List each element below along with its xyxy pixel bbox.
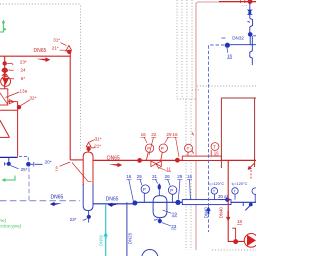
node dot DN32 (248, 32, 253, 37)
thermometer T5 blue (252, 188, 258, 194)
inline unit box on supply header (182, 156, 221, 160)
boundary dotted right y=86 (192, 86, 256, 250)
svg-text:25*: 25* (21, 167, 28, 172)
label 24 (21, 68, 27, 73)
separator vessel 4 (capsule) (83, 152, 93, 185)
blue label row (126, 174, 192, 179)
svg-text:6*: 6* (21, 76, 26, 81)
svg-text:DN40: DN40 (203, 207, 208, 219)
flow arrow up on riser (206, 206, 210, 214)
gauge P3 blue (141, 185, 149, 193)
pipe supply header DN65 (93, 159, 256, 161)
svg-text:16: 16 (187, 174, 193, 179)
svg-text:t₀=120°C: t₀=120°C (208, 181, 224, 186)
svg-text:23: 23 (171, 224, 177, 229)
thermometer T1 red (185, 144, 193, 152)
boiler return navy (0, 156, 18, 158)
consumer circle bottom (142, 250, 158, 256)
vessel drain node 23 (159, 218, 161, 224)
red label row (141, 132, 178, 137)
node dot top right (248, 0, 253, 4)
thermometer T3 blue (211, 188, 217, 194)
svg-text:T: T (213, 189, 216, 194)
pipe left riser (4, 56, 6, 88)
pump 6 (circle + down triangle) (1, 76, 11, 86)
svg-text:DN40: DN40 (218, 207, 223, 219)
svg-text:21*: 21* (52, 46, 59, 51)
svg-text:DN65: DN65 (106, 197, 119, 203)
thermometer T4 blue (232, 188, 238, 194)
cyan flow arrow up (103, 232, 108, 237)
valve 21 (triangle) at corner (66, 45, 71, 50)
svg-text:16: 16 (227, 53, 233, 58)
label 32* (30, 96, 37, 101)
boiler body box (0, 102, 18, 157)
blue label leaders (129, 179, 191, 201)
separator bottom node 23* (88, 211, 90, 223)
pipe segment (249, 15, 251, 19)
node dot pump branch (233, 239, 238, 244)
return flow arrow (108, 203, 119, 207)
pipe blue DN25 (126, 202, 128, 256)
svg-text:T: T (233, 189, 236, 194)
label 23* (20, 59, 27, 64)
svg-text:DN50: DN50 (98, 234, 103, 246)
red label leaders (144, 137, 179, 157)
exchanger frame (221, 98, 256, 168)
svg-text:21*: 21* (94, 143, 101, 148)
label 20* (45, 159, 52, 164)
node dot on return box (225, 198, 229, 202)
pipe red drop (228, 160, 244, 241)
svg-text:P: P (143, 187, 146, 192)
svg-text:DN32: DN32 (232, 36, 244, 41)
valve lever right (242, 202, 244, 206)
return flow arrow left (50, 202, 62, 206)
svg-text:16: 16 (126, 174, 132, 179)
valve 21 on separator top (86, 142, 91, 147)
svg-text:29: 29 (177, 174, 183, 179)
svg-text:DN65: DN65 (107, 155, 120, 161)
svg-text:11: 11 (166, 166, 171, 171)
svg-text:nstracyjne): nstracyjne) (0, 224, 22, 229)
node dot C (132, 201, 137, 206)
svg-text:16: 16 (172, 132, 178, 137)
branch 18 (232, 228, 235, 239)
svg-text:16: 16 (214, 150, 219, 155)
green inlet arrow top-left (0, 20, 5, 32)
svg-text:23*: 23* (70, 217, 77, 222)
svg-text:32*: 32* (30, 96, 37, 101)
node dot header B (175, 158, 180, 163)
pump 18 (circle + triangle) (244, 234, 258, 248)
label 19 (172, 212, 178, 217)
right column pipe (250, 36, 253, 65)
pipe DN65 supply top-left (0, 52, 84, 160)
label 21* separator (94, 143, 101, 148)
pipe blue drop (249, 4, 251, 10)
svg-text:29: 29 (137, 174, 143, 179)
node dot corner (67, 50, 71, 54)
svg-text:4: 4 (55, 165, 58, 170)
label 4 (55, 165, 58, 170)
air vent 31 (157, 183, 161, 186)
tick marks on pink frame (192, 133, 194, 154)
flow arrow down (226, 217, 230, 222)
svg-text:P: P (170, 188, 173, 193)
heat source box upper-left (0, 89, 8, 105)
dashed riser to bottom header (28, 168, 30, 201)
green node dot (4, 28, 6, 30)
svg-text:ne): ne) (0, 218, 7, 223)
label 23 (171, 224, 177, 229)
svg-text:31*: 31* (53, 38, 60, 43)
svg-text:24: 24 (21, 68, 27, 73)
thermometer T2 red (211, 143, 219, 151)
node dot 32* (17, 105, 21, 109)
svg-text:23*: 23* (20, 59, 27, 64)
dashed riser DN40 (208, 68, 210, 232)
dashed return header bottom-left (0, 200, 80, 202)
svg-text:31*: 31* (95, 137, 102, 142)
svg-text:P: P (161, 146, 164, 151)
svg-text:26: 26 (165, 174, 171, 179)
ball valve blue filled (247, 10, 253, 13)
svg-text:DN65: DN65 (51, 194, 64, 200)
node dot 23* (2, 61, 6, 65)
control arrow red right (249, 163, 255, 169)
check valve 32 (9, 100, 14, 104)
svg-text:P: P (147, 146, 150, 151)
valve 24 (actuator dome + seat) (2, 68, 9, 71)
label 11 (166, 166, 171, 171)
pipe segment to tee (249, 37, 251, 45)
svg-text:20*: 20* (45, 159, 52, 164)
pipe red top edge (219, 1, 256, 3)
svg-text:—·•: —·• (242, 3, 247, 7)
svg-text:19: 19 (172, 212, 178, 217)
svg-text:29: 29 (166, 132, 172, 137)
label 23* separator (70, 217, 77, 222)
node dot 25* (8, 157, 10, 162)
flow arrow header (109, 163, 123, 167)
svg-text:T: T (187, 146, 190, 151)
node dot tee (225, 43, 230, 48)
gauge P1 red (145, 144, 153, 152)
pipe segment (249, 27, 251, 33)
flex jog fitting (248, 18, 253, 26)
pipe return header left (93, 203, 135, 205)
svg-text:DN25: DN25 (127, 232, 132, 244)
svg-text:18: 18 (237, 219, 243, 224)
node dot header A (137, 158, 142, 163)
green note text (0, 218, 22, 229)
pipe cyan DN50 (105, 204, 107, 256)
svg-text:22: 22 (151, 132, 157, 137)
svg-text:T: T (213, 145, 216, 150)
mixing valve 11 (151, 161, 161, 168)
dashed link to node 20* (19, 157, 28, 162)
dashed branch left (209, 45, 225, 68)
node dot D (175, 200, 180, 205)
label 31* separator (95, 137, 102, 142)
pipe horizontal tee (230, 44, 256, 46)
node dot 20* (26, 162, 31, 167)
svg-text:t₀=120°C: t₀=120°C (232, 181, 248, 186)
label 25* (21, 167, 28, 172)
svg-text:16: 16 (141, 132, 147, 137)
pipe return header right (135, 201, 256, 203)
label 13a (20, 88, 28, 93)
leader into vessel (72, 163, 92, 182)
gauge P2 red (159, 144, 167, 152)
ticks on top pipe (240, 0, 242, 3)
label 6* (21, 76, 26, 81)
inline unit box on return header (182, 200, 231, 205)
green elbow arrow mid-left (2, 176, 15, 182)
svg-text:31: 31 (152, 174, 158, 179)
label 31* (53, 38, 60, 43)
svg-text:DN65: DN65 (34, 48, 47, 54)
frame pink right (196, 2, 256, 250)
gauge P4 blue (168, 186, 176, 194)
boundary dotted vertical group x=177 (177, 0, 196, 250)
flow arrow (36, 57, 50, 62)
label 16 under T2 (214, 150, 219, 155)
expansion vessel 19 (capsule) (153, 196, 167, 218)
boundary dotted top-left zone (0, 4, 81, 151)
red dashed stub (250, 170, 252, 179)
svg-text:13a: 13a (20, 88, 28, 93)
label 21* (52, 46, 59, 51)
